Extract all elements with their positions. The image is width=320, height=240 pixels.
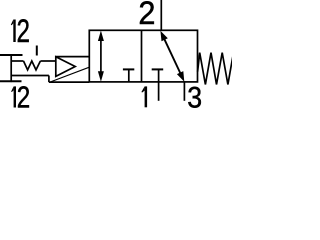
svg-text:2: 2 [16, 14, 29, 50]
solenoid left vertical [10, 54, 12, 82]
arrowhead down (left position) [98, 71, 104, 82]
left position blocked port bar [123, 68, 134, 70]
svg-text:2: 2 [138, 0, 155, 31]
label port 1 [141, 86, 147, 107]
port 1 line [158, 82, 160, 101]
3/2-way solenoid pilot valve schematic [0, 0, 232, 110]
label 12 top: digit 1 [11, 20, 16, 43]
right position blocked port bar [152, 68, 164, 70]
position divider [141, 30, 143, 82]
valve body [89, 30, 197, 82]
solenoid terminal bar bottom [0, 80, 22, 82]
pilot amplifier triangle [56, 57, 75, 77]
arrowhead up (left position) [98, 31, 104, 42]
coil winding zigzag [24, 61, 41, 70]
svg-text:3: 3 [187, 81, 202, 110]
arrowhead diagonal bottom [177, 71, 184, 82]
left position blocked port stub [128, 69, 130, 82]
pilot drop vertical [48, 76, 50, 83]
arrowhead diagonal top [160, 31, 167, 42]
solenoid terminal bar top [0, 54, 23, 56]
pilot channel top line [56, 56, 90, 58]
svg-text:2: 2 [17, 80, 30, 110]
port 3 line [183, 82, 185, 101]
return spring [198, 53, 234, 85]
pilot bottom line to valve [49, 81, 89, 83]
right position blocked port stub [158, 69, 160, 82]
coil box top edge left [11, 60, 23, 62]
pilot port 12 stub [36, 46, 38, 56]
label 12 bottom: digit 1 [11, 86, 16, 107]
coil box bottom edge [11, 75, 49, 77]
internal pilot diagonal [49, 67, 89, 82]
coil box top edge right [40, 60, 55, 62]
exhaust diagonal shaft [164, 37, 182, 75]
left position flow arrow shaft [100, 38, 102, 74]
port 2 line [160, 0, 162, 30]
